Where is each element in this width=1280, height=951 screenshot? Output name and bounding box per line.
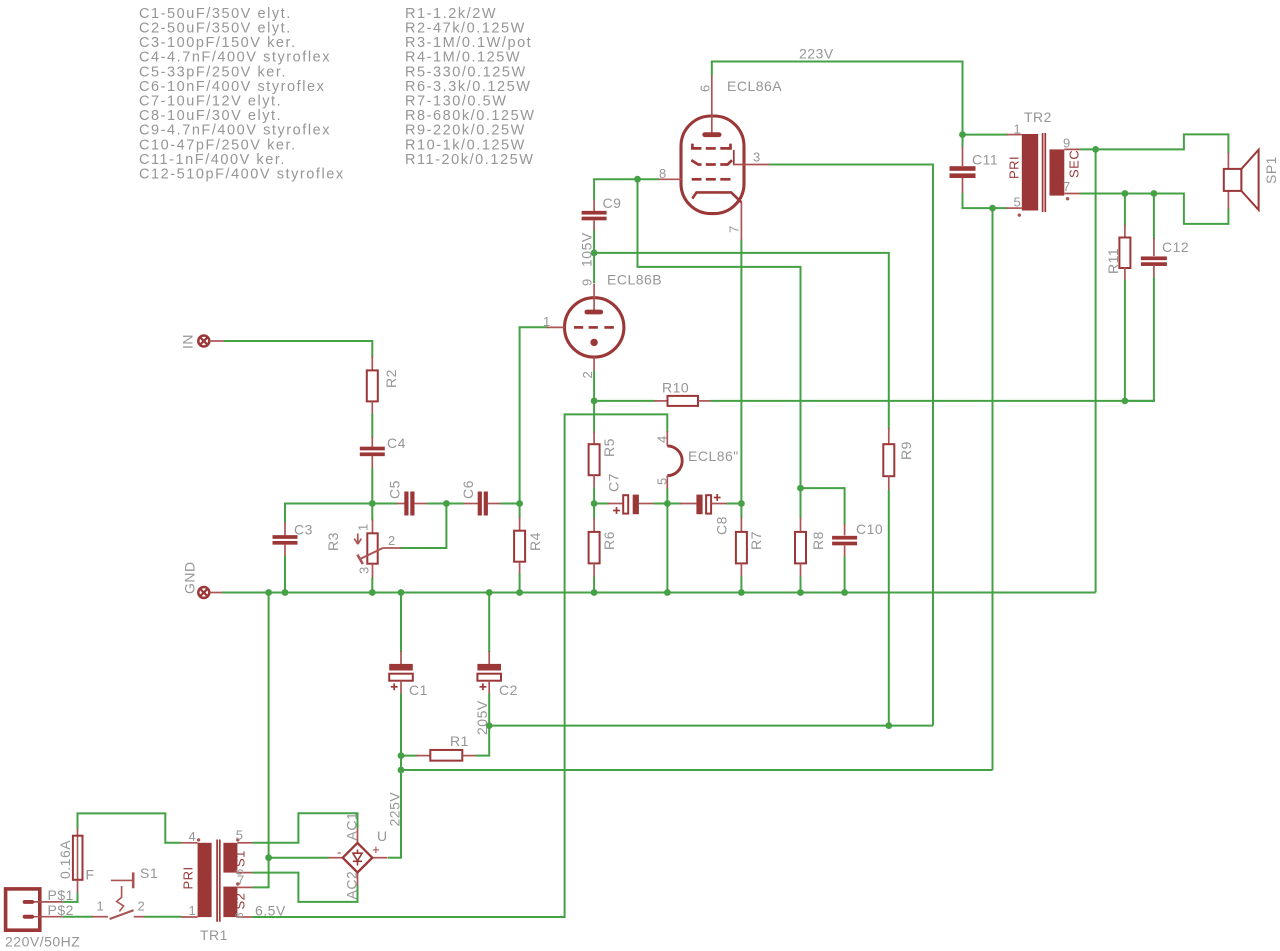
node L junction <box>989 205 996 212</box>
svg-text:C2-50uF/350V elyt.: C2-50uF/350V elyt. <box>139 21 292 37</box>
wire R9 to 205V line <box>888 490 890 726</box>
svg-text:R7-130/0.5W: R7-130/0.5W <box>405 94 507 110</box>
svg-text:C1: C1 <box>409 682 428 698</box>
svg-text:P$2: P$2 <box>48 902 74 918</box>
wire R3 pin2 to node B <box>401 504 446 550</box>
wire R6 to GND bus <box>593 577 595 593</box>
switch S1 <box>92 865 158 919</box>
svg-text:R4-1M/0.125W: R4-1M/0.125W <box>405 50 521 66</box>
wire node C to ECL86B grid <box>519 327 548 504</box>
wire switch to TR1 pin1 <box>145 916 182 918</box>
wire node A to C3 <box>285 503 373 524</box>
wire TR1 pin4 to fuse <box>78 812 182 843</box>
svg-text:C9-4.7nF/400V styroflex: C9-4.7nF/400V styroflex <box>139 123 331 139</box>
capacitor C8 <box>667 494 729 535</box>
wire pin7 to speaker <box>1183 193 1229 225</box>
wire pin3 to 205V riser <box>769 164 933 726</box>
svg-text:C7-10uF/12V elyt.: C7-10uF/12V elyt. <box>139 94 282 110</box>
wire C7 to node I <box>654 503 668 505</box>
svg-text:R3-1M/0.1W/pot: R3-1M/0.1W/pot <box>405 35 532 51</box>
svg-text:R11-20k/0.125W: R11-20k/0.125W <box>405 152 534 168</box>
svg-text:6: 6 <box>698 84 713 92</box>
svg-text:R6-3.3k/0.125W: R6-3.3k/0.125W <box>405 79 531 95</box>
node J junction <box>738 500 745 507</box>
svg-text:0.16A: 0.16A <box>57 840 73 879</box>
svg-text:6.5V: 6.5V <box>255 903 286 919</box>
svg-text:105V: 105V <box>579 232 595 267</box>
svg-text:1: 1 <box>189 903 197 918</box>
wire filament to node I <box>666 489 668 504</box>
resistor R6 <box>589 504 617 578</box>
svg-text:P$1: P$1 <box>48 887 74 903</box>
capacitor C12 <box>1125 194 1189 401</box>
node I junction <box>664 500 671 507</box>
capacitor C4 <box>360 435 406 469</box>
svg-text:R11: R11 <box>1105 248 1121 274</box>
svg-text:6: 6 <box>234 868 246 875</box>
node S junction <box>885 722 892 729</box>
svg-text:C5: C5 <box>387 480 403 499</box>
terminal GND <box>182 561 223 598</box>
svg-text:PRI: PRI <box>1007 156 1022 179</box>
wire C9 to ECL86A grid <box>593 179 659 200</box>
capacitor C2 <box>477 651 518 698</box>
wire C4 to node A <box>371 468 373 504</box>
svg-text:R8-680k/0.125W: R8-680k/0.125W <box>405 108 536 124</box>
svg-text:C1-50uF/350V elyt.: C1-50uF/350V elyt. <box>139 6 292 22</box>
capacitor C1 <box>389 651 428 698</box>
wire 205V line <box>489 725 933 727</box>
wire plug P$2 to switch <box>63 916 93 918</box>
svg-text:3: 3 <box>357 566 372 574</box>
svg-text:C11: C11 <box>972 152 998 168</box>
node B junction <box>443 500 450 507</box>
resistor R1 <box>401 733 477 761</box>
svg-text:TR2: TR2 <box>1024 109 1052 125</box>
node R junction 205V <box>474 700 493 735</box>
svg-text:F: F <box>86 867 95 883</box>
capacitor C9 <box>582 195 622 253</box>
wire 225V line to TR2 <box>401 769 993 771</box>
svg-text:S2: S2 <box>233 893 248 910</box>
svg-text:C10: C10 <box>856 521 883 537</box>
svg-text:GND: GND <box>182 561 198 594</box>
svg-text:R8: R8 <box>810 531 826 550</box>
svg-text:220V/50HZ: 220V/50HZ <box>5 934 80 950</box>
svg-text:C12: C12 <box>1162 239 1189 255</box>
svg-text:8: 8 <box>659 166 667 181</box>
svg-text:+: + <box>372 842 380 857</box>
speaker SP1 <box>1224 150 1279 210</box>
wire bus to C2 <box>488 593 490 653</box>
svg-text:R5-330/0.125W: R5-330/0.125W <box>405 64 527 80</box>
svg-text:TR1: TR1 <box>200 927 228 943</box>
svg-text:R2-47k/0.125W: R2-47k/0.125W <box>405 21 526 37</box>
wire node A to R3 <box>371 504 373 521</box>
transformer TR1 <box>180 828 252 944</box>
node O junction <box>1151 190 1158 197</box>
wire bridge AC2 to TR1 pin6 <box>253 873 359 903</box>
svg-text:ECL86B: ECL86B <box>607 272 662 288</box>
wire node U to TR1 pin7 <box>253 858 270 888</box>
wire R10 to feedback node <box>711 400 1155 402</box>
svg-text:ECL86A: ECL86A <box>727 78 782 94</box>
wire C1 to node Q <box>400 694 402 756</box>
svg-text:ECL86": ECL86" <box>688 448 739 464</box>
svg-text:S1: S1 <box>140 865 158 881</box>
wire TR2 pin5 to 225V line <box>992 208 994 770</box>
capacitor C11 <box>950 135 999 209</box>
svg-text:C8: C8 <box>714 516 730 535</box>
wire IN to R2 <box>224 340 372 358</box>
svg-text:S1: S1 <box>233 850 248 867</box>
wire node A to C5 <box>372 503 397 505</box>
heater supply wire <box>565 413 668 432</box>
svg-text:C10-47pF/250V ker.: C10-47pF/250V ker. <box>139 137 297 153</box>
wire ECL86B plate to node D <box>593 253 595 283</box>
node H junction <box>591 500 598 507</box>
svg-text:C6-10nF/400V styroflex: C6-10nF/400V styroflex <box>139 79 325 95</box>
capacitor C6 <box>460 480 502 515</box>
svg-text:C6: C6 <box>460 480 476 499</box>
svg-text:4: 4 <box>655 435 670 443</box>
svg-text:R9: R9 <box>898 441 914 460</box>
wire C8 to node J <box>727 503 742 505</box>
svg-text:C8-10uF/30V elyt.: C8-10uF/30V elyt. <box>139 108 282 124</box>
wire GND bus <box>222 592 1096 594</box>
resistor R4 <box>514 517 543 575</box>
svg-text:R9-220k/0.25W: R9-220k/0.25W <box>405 123 526 139</box>
svg-text:5: 5 <box>655 477 670 485</box>
svg-text:8: 8 <box>234 912 246 919</box>
svg-text:C4-4.7nF/400V styroflex: C4-4.7nF/400V styroflex <box>139 50 331 66</box>
svg-text:225V: 225V <box>387 792 403 827</box>
wire fuse to plug P$1 <box>63 893 79 902</box>
svg-text:1: 1 <box>543 314 551 329</box>
svg-text:IN: IN <box>180 334 196 349</box>
wire node J to ECL86A cathode <box>740 240 742 504</box>
wire R2 to C4 <box>371 414 373 438</box>
wire ECL86B cathode to node G <box>593 371 595 401</box>
node K junction <box>959 131 966 138</box>
parts list resistors <box>405 6 536 168</box>
wire node C to R4 <box>519 504 521 519</box>
filament ECL86 pins 4-5 <box>655 431 739 490</box>
svg-text:R2: R2 <box>383 369 399 388</box>
node Q junction <box>398 752 405 759</box>
wire TR2 pin9 to speaker <box>1080 133 1228 153</box>
fuse F 0.16A <box>57 829 95 894</box>
node E junction grid <box>634 176 641 183</box>
wire R7 to GND bus <box>740 577 742 593</box>
capacitor C3 <box>273 522 313 558</box>
svg-text:1: 1 <box>97 899 105 914</box>
wire node Q to node T <box>400 755 402 770</box>
wire R4 to GND bus <box>519 574 521 593</box>
resistor R11 <box>1105 194 1130 401</box>
wire C10 to GND bus <box>844 557 846 593</box>
svg-text:1: 1 <box>356 523 371 531</box>
svg-text:R5: R5 <box>601 438 617 457</box>
terminal IN <box>180 334 225 349</box>
wire R1 to node R <box>476 726 490 757</box>
svg-text:C5-33pF/250V ker.: C5-33pF/250V ker. <box>139 64 287 80</box>
svg-text:7: 7 <box>1063 179 1071 194</box>
wire bus to C1 <box>400 593 402 653</box>
node C junction <box>516 500 523 507</box>
svg-text:4: 4 <box>189 829 197 844</box>
wire node T to bridge <box>387 770 403 858</box>
wire C2 to node R <box>488 694 490 726</box>
wire R3 pin3 to GND bus <box>371 578 373 593</box>
svg-text:2: 2 <box>580 371 595 379</box>
wire C6 to node C <box>501 503 520 505</box>
wire C3 to GND bus <box>284 556 286 593</box>
transformer TR2 <box>963 109 1082 217</box>
svg-text:R10-1k/0.125W: R10-1k/0.125W <box>405 137 526 153</box>
resistor R2 <box>367 356 399 415</box>
svg-text:R7: R7 <box>748 531 764 550</box>
resistor R10 <box>594 380 711 406</box>
svg-text:R1-1.2k/2W: R1-1.2k/2W <box>405 6 497 22</box>
svg-text:C11-1nF/400V ker.: C11-1nF/400V ker. <box>139 152 286 168</box>
wire GND bus riser <box>1095 149 1097 592</box>
svg-text:C7: C7 <box>606 473 622 492</box>
svg-text:PRI: PRI <box>181 866 196 889</box>
svg-text:205V: 205V <box>474 700 490 735</box>
capacitor C7 <box>594 473 654 514</box>
wire R5 to node H <box>593 488 595 504</box>
svg-text:-: - <box>337 845 342 860</box>
svg-text:R3: R3 <box>325 532 341 551</box>
resistor R9 <box>883 428 914 491</box>
wire bridge AC1 to TR1 pin5 <box>253 812 359 843</box>
svg-text:223V: 223V <box>799 46 834 62</box>
wire node I to GND bus <box>666 504 668 593</box>
rectifier U <box>328 812 388 900</box>
svg-text:9: 9 <box>1063 136 1071 151</box>
tube ECL86B <box>543 272 662 379</box>
wire C5 to node B <box>427 503 446 505</box>
node GND bus junctions <box>265 589 848 596</box>
svg-text:3: 3 <box>753 150 761 165</box>
node F junction <box>797 485 804 492</box>
svg-text:5: 5 <box>236 828 244 843</box>
svg-text:7: 7 <box>727 225 742 233</box>
capacitor C5 <box>387 480 429 515</box>
wire R8 to GND bus <box>800 577 802 593</box>
node P junction <box>1122 398 1129 405</box>
svg-text:R10: R10 <box>662 380 689 396</box>
svg-text:2: 2 <box>388 533 396 548</box>
svg-text:5: 5 <box>1014 195 1022 210</box>
wire node U to GND bus <box>268 593 270 858</box>
potentiometer R3 <box>325 520 402 579</box>
wire node E to node F <box>637 179 801 488</box>
wire node B to C6 <box>446 503 464 505</box>
parts list capacitors <box>139 6 345 183</box>
node G junction <box>591 398 598 405</box>
wire bridge minus to node U <box>269 857 329 859</box>
svg-text:C3: C3 <box>294 522 313 538</box>
node A junction <box>369 500 376 507</box>
svg-text:R1: R1 <box>450 733 469 749</box>
node T junction <box>398 767 405 774</box>
svg-text:C3-100pF/150V ker.: C3-100pF/150V ker. <box>139 35 297 51</box>
svg-text:SEC: SEC <box>1067 150 1082 178</box>
svg-text:R4: R4 <box>527 532 543 551</box>
svg-text:C9: C9 <box>603 195 622 211</box>
wire 105V to R9 <box>594 252 889 429</box>
node M junction <box>1092 146 1099 153</box>
svg-text:1: 1 <box>1014 121 1022 136</box>
node U junction <box>265 854 272 861</box>
wire TR1 pin8 heater 6.5V <box>253 413 565 918</box>
svg-text:2: 2 <box>138 899 146 914</box>
svg-text:C12-510pF/400V styroflex: C12-510pF/400V styroflex <box>139 167 345 183</box>
wire node G to R5 <box>593 401 595 433</box>
svg-text:R6: R6 <box>601 531 617 550</box>
resistor R5 <box>589 432 617 489</box>
tube ECL86A <box>659 74 783 240</box>
wire node F to C10 <box>801 487 845 525</box>
node N junction <box>1122 190 1129 197</box>
svg-text:SP1: SP1 <box>1263 156 1279 184</box>
capacitor C10 <box>832 521 883 558</box>
svg-text:C2: C2 <box>499 682 518 698</box>
connector plug 220V <box>5 887 80 950</box>
resistor R7 <box>736 504 764 578</box>
wire 223V plate supply <box>711 46 963 135</box>
resistor R8 <box>795 488 826 577</box>
wire TR2 pin7 line <box>1080 193 1184 195</box>
svg-text:9: 9 <box>580 278 595 286</box>
svg-text:C4: C4 <box>387 435 406 451</box>
node D junction 105V <box>579 232 598 267</box>
